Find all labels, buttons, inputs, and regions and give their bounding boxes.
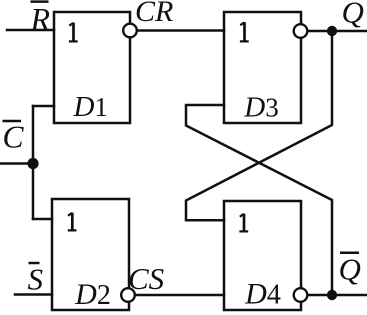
wire C riser [32, 106, 35, 219]
gate D1 box [54, 12, 130, 123]
wire C to D2 [33, 218, 52, 221]
wire C input [1, 162, 33, 165]
junction node Q [327, 26, 337, 36]
svg-text:D4: D4 [244, 278, 281, 311]
junction node C [27, 158, 38, 169]
overbar of S [29, 262, 40, 265]
gate D2 box [52, 199, 129, 310]
svg-text:D3: D3 [243, 92, 278, 124]
overbar of Qbar [340, 252, 359, 255]
inverter bubble D1 output [123, 24, 137, 38]
gate D4 box [224, 201, 301, 310]
wire Q feedback to D4 [186, 31, 332, 220]
svg-text:D1: D1 [72, 91, 107, 123]
wire Qbar feedback to D3 [186, 105, 332, 295]
inverter bubble D4 output [294, 288, 308, 302]
wire Qbar output [308, 294, 367, 297]
wire CR [137, 29, 224, 32]
overbar of C [3, 120, 22, 123]
label 1 in D2 [68, 213, 77, 231]
overbar of R [31, 0, 49, 3]
svg-text:Q: Q [339, 252, 361, 287]
wire C to D1 [33, 105, 54, 108]
svg-text:Q: Q [342, 0, 364, 30]
label 1 in D3 [240, 22, 249, 41]
wire S input [15, 293, 52, 296]
junction node Qbar [327, 290, 337, 300]
svg-text:D2: D2 [74, 278, 111, 311]
inverter bubble D2 output [121, 288, 135, 302]
wire Q output [308, 30, 367, 33]
wire R input [7, 29, 54, 32]
svg-text:R: R [30, 1, 51, 37]
svg-text:CR: CR [135, 0, 173, 28]
svg-text:S: S [28, 262, 44, 297]
label 1 in D1 [69, 23, 78, 42]
svg-text:C: C [3, 120, 25, 155]
gate D3 box [224, 12, 301, 123]
svg-text:CS: CS [128, 261, 164, 296]
label 1 in D4 [239, 214, 248, 232]
inverter bubble D3 output [294, 24, 308, 38]
wire CS [136, 294, 225, 297]
